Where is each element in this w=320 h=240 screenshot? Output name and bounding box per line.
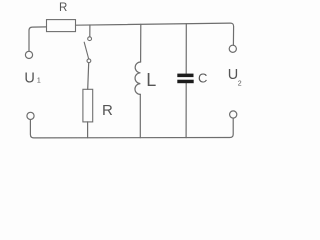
svg-text:1: 1 <box>37 78 41 85</box>
svg-text:C: C <box>198 71 207 86</box>
svg-text:R: R <box>59 2 67 14</box>
svg-text:R: R <box>102 102 113 119</box>
svg-text:U: U <box>24 71 34 87</box>
svg-text:L: L <box>146 70 156 90</box>
svg-text:2: 2 <box>238 80 242 87</box>
svg-text:U: U <box>228 67 238 83</box>
